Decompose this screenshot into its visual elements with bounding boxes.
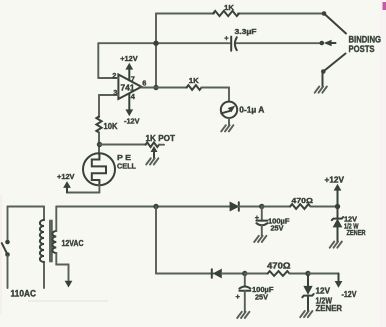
label R4 470 xyxy=(267,261,291,270)
wire D2 to C3 xyxy=(221,273,245,275)
node C2 junction xyxy=(259,204,264,209)
label pin 3 xyxy=(113,88,117,97)
label C1 plus xyxy=(224,33,229,42)
wire negative rail drop xyxy=(155,207,157,274)
wire pin2 input xyxy=(98,43,118,78)
wire C3 to R4 xyxy=(245,273,268,275)
capacitor C3 100uF xyxy=(239,274,250,312)
label 1K output xyxy=(189,76,200,85)
svg-text:7: 7 xyxy=(131,75,135,84)
node pot junction xyxy=(97,142,102,147)
label C2 value xyxy=(268,217,290,233)
svg-text:+12V: +12V xyxy=(325,175,345,184)
ground C2 xyxy=(254,236,266,242)
svg-text:+: + xyxy=(236,292,241,301)
scan mark magenta top right xyxy=(383,2,386,10)
label 1K POT xyxy=(146,134,176,143)
wire pin3 input xyxy=(99,95,118,117)
label pin 2 xyxy=(112,71,116,80)
svg-text:+: + xyxy=(255,213,260,222)
wire meter to ground xyxy=(228,118,230,125)
svg-text:+: + xyxy=(224,33,229,42)
svg-text:25V: 25V xyxy=(255,292,268,301)
label BINDING POSTS xyxy=(349,35,382,55)
wire capacitor rail xyxy=(98,42,320,44)
binding post 2 (middle) xyxy=(320,40,336,45)
label +12V rail xyxy=(325,175,345,184)
arrow +12V rail xyxy=(334,185,340,191)
label C3 plus xyxy=(236,292,241,301)
node rails junction xyxy=(153,204,158,209)
potentiometer 1K POT xyxy=(146,142,165,147)
diode D2 xyxy=(212,269,222,277)
svg-text:3.3µF: 3.3µF xyxy=(235,27,258,36)
zener D3 12V xyxy=(332,207,343,242)
label pin 6 xyxy=(142,78,146,87)
label C2 plus xyxy=(255,213,260,222)
svg-text:0-1µ A: 0-1µ A xyxy=(239,105,264,114)
binding post 1 (top) xyxy=(322,11,346,33)
svg-text:470Ω: 470Ω xyxy=(292,196,314,205)
wire cap to R3 xyxy=(262,206,291,208)
node -12V rail xyxy=(305,271,310,276)
arrow +12V PE cell xyxy=(64,182,70,188)
label PE CELL xyxy=(117,153,136,170)
label -12V rail xyxy=(342,290,358,299)
wire R3 to +12V node xyxy=(311,206,338,208)
transformer T1 primary coil xyxy=(40,220,44,262)
node +12V xyxy=(335,204,340,209)
svg-text:-12V: -12V xyxy=(342,290,358,299)
label 12VAC xyxy=(62,239,84,248)
ground pot xyxy=(146,158,158,164)
resistor 1K output xyxy=(187,85,202,90)
label R3 470 xyxy=(292,196,314,205)
transformer core xyxy=(50,221,52,262)
wire op-amp output xyxy=(141,87,187,89)
capacitor C2 100uF xyxy=(256,207,267,236)
wire PE cell bottom xyxy=(67,185,99,193)
node C3 junction xyxy=(242,271,247,276)
label pin 7 xyxy=(131,75,135,84)
binding post 3 (bottom) xyxy=(321,54,346,87)
svg-text:-12V: -12V xyxy=(124,117,140,126)
arrow -12V op-amp xyxy=(126,110,132,116)
arrow secondary common xyxy=(65,281,71,287)
svg-text:12VAC: 12VAC xyxy=(62,239,84,248)
label pin 4 xyxy=(131,92,136,101)
node output junction xyxy=(153,85,158,90)
wire 10K to node xyxy=(98,133,100,155)
wire primary top lead xyxy=(8,207,45,221)
photocell element xyxy=(92,154,106,185)
ground binding post xyxy=(315,87,327,93)
resistor 1K feedback xyxy=(213,11,239,16)
ground meter xyxy=(221,125,233,131)
label 110AC xyxy=(11,288,37,299)
zener D4 12V xyxy=(302,274,313,312)
switch S1 xyxy=(2,240,10,288)
svg-text:1K: 1K xyxy=(224,3,235,12)
svg-text:POSTS: POSTS xyxy=(349,44,375,54)
wire to pot xyxy=(100,144,147,146)
wire +12V stub xyxy=(337,190,339,207)
wire positive rail xyxy=(56,206,230,208)
svg-text:3: 3 xyxy=(113,88,117,97)
wire -12V stub xyxy=(308,274,339,282)
capacitor C1 3.3uF xyxy=(231,37,237,51)
label 10K xyxy=(104,122,118,131)
ground C3 xyxy=(237,312,249,318)
svg-text:+12V: +12V xyxy=(57,172,75,181)
transformer T1 secondary coil xyxy=(52,231,56,253)
wire pin 7 supply xyxy=(128,69,130,81)
label meter range xyxy=(239,105,264,114)
scan smudge bottom xyxy=(28,300,108,302)
resistor R3 470 xyxy=(290,204,311,209)
svg-text:2: 2 xyxy=(112,71,116,80)
wire output to meter xyxy=(202,88,230,102)
svg-text:470Ω: 470Ω xyxy=(267,261,291,270)
photocell PC1 circle xyxy=(83,153,115,185)
wire secondary bottom lead xyxy=(56,253,68,281)
resistor R4 470 xyxy=(268,271,290,276)
svg-text:CELL: CELL xyxy=(117,161,136,170)
resistor 10K xyxy=(96,117,101,133)
label C3 value xyxy=(252,285,274,301)
svg-text:+12V: +12V xyxy=(120,54,138,63)
label D3 xyxy=(344,217,366,237)
wire secondary top lead xyxy=(55,207,57,232)
wire mains left xyxy=(7,207,9,241)
label C1 value xyxy=(235,27,258,36)
node feedback junction xyxy=(153,41,158,46)
ground zener D3 xyxy=(330,242,342,248)
svg-text:12V: 12V xyxy=(316,287,331,296)
label -12V op-amp xyxy=(124,117,140,126)
wire top feedback rail xyxy=(156,13,324,15)
svg-text:BINDING: BINDING xyxy=(349,35,382,45)
arrow +12V op-amp xyxy=(126,64,132,70)
pot wiper arrow xyxy=(151,147,157,158)
svg-text:ZENER: ZENER xyxy=(316,304,343,313)
wire pin 4 supply xyxy=(128,93,130,110)
wire R4 to -12V node xyxy=(290,273,309,275)
wire negative rail xyxy=(156,273,214,275)
diode D1 xyxy=(230,202,239,211)
svg-text:110AC: 110AC xyxy=(11,288,37,299)
ground zener D4 xyxy=(300,311,312,317)
label 1K feedback xyxy=(224,3,235,12)
wire D1 to cap xyxy=(239,206,262,208)
op-amp U1 741 triangle xyxy=(118,75,141,100)
svg-text:741: 741 xyxy=(121,84,136,93)
svg-text:25V: 25V xyxy=(271,224,284,233)
wire vertical feedback drop xyxy=(155,14,157,88)
label +12V op-amp xyxy=(120,54,138,63)
arrow -12V rail xyxy=(335,281,341,287)
svg-text:1K POT: 1K POT xyxy=(146,134,176,143)
label +12V PE cell xyxy=(57,172,75,181)
label D4 xyxy=(316,287,343,314)
svg-text:10K: 10K xyxy=(104,122,118,131)
svg-text:1K: 1K xyxy=(189,76,200,85)
svg-text:ZENER: ZENER xyxy=(347,230,366,237)
wire primary bottom lead xyxy=(43,262,45,288)
meter M1 0-1uA xyxy=(221,102,237,118)
label 741 xyxy=(121,84,136,93)
svg-text:6: 6 xyxy=(142,78,146,87)
